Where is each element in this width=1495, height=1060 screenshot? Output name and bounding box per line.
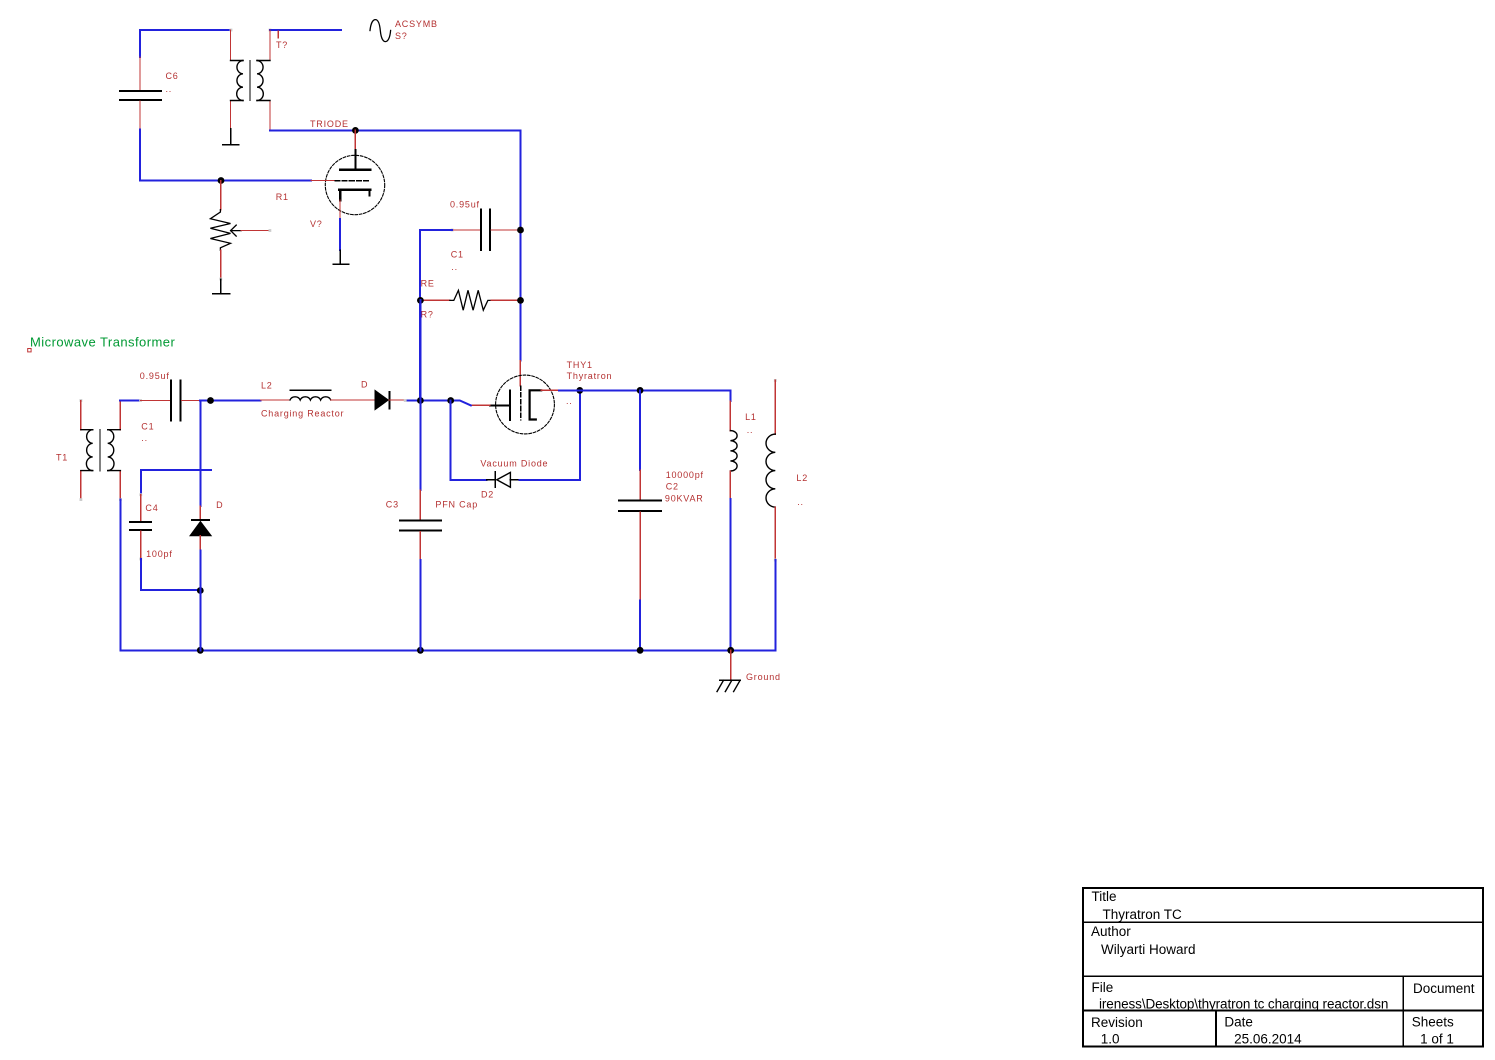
op-amp V? triode tube (310, 130, 385, 229)
junction C1 right node (207, 397, 214, 404)
wire T1 bottom right to rail (119, 500, 121, 651)
wire C4 top branch (141, 470, 211, 495)
svg-text:Wilyarti Howard: Wilyarti Howard (1101, 942, 1196, 957)
wire T1 top right pin (120, 400, 140, 402)
wire L1 bottom lead (729, 499, 731, 650)
diode D2 vacuum diode (480, 459, 548, 500)
inductor L2 Charging Reactor (261, 380, 376, 418)
svg-text:C6: C6 (166, 71, 179, 81)
svg-text:R1: R1 (276, 192, 289, 202)
junction C1 right (517, 227, 524, 234)
pin marker T? left (230, 29, 233, 32)
svg-text:..: .. (797, 497, 804, 507)
title block text Title (1092, 889, 1183, 922)
wire mid vertical to diode D (199, 401, 201, 507)
inductor L2 (right) (766, 379, 808, 561)
svg-text:C1: C1 (451, 250, 464, 260)
title block text Author (1091, 924, 1196, 957)
junction rail ground (727, 647, 734, 654)
junction rail C3 (417, 647, 424, 654)
title block text File (1092, 980, 1475, 1011)
svg-text:L2: L2 (261, 380, 273, 390)
svg-text:Vacuum Diode: Vacuum Diode (480, 459, 548, 469)
svg-text:V?: V? (310, 219, 323, 229)
svg-text:Sheets: Sheets (1412, 1015, 1454, 1030)
junction rail C2 (637, 647, 644, 654)
svg-text:Thyratron: Thyratron (567, 371, 613, 381)
wire RE branch vertical (419, 300, 421, 490)
svg-text:C2: C2 (666, 482, 679, 492)
svg-text:0.95uf: 0.95uf (140, 371, 170, 381)
svg-text:0.95uf: 0.95uf (450, 199, 480, 209)
capacitor C1 0.95uf (top) (450, 199, 521, 272)
svg-text:D2: D2 (481, 489, 494, 499)
svg-text:TRIODE: TRIODE (310, 119, 349, 129)
svg-text:1.0: 1.0 (1101, 1032, 1120, 1047)
AC source symbol ACSYMB S? (370, 19, 438, 42)
title block frame (1083, 888, 1483, 1047)
junction diode output (417, 397, 424, 404)
capacitor C1 0.95uf (mid) (139, 371, 200, 443)
junction C2 top (637, 387, 644, 394)
label Microwave Transformer (28, 335, 176, 352)
wire transformer to ACSYMB net (270, 29, 341, 31)
pin marker T? right (269, 29, 272, 32)
wire C1 left to RE branch (420, 230, 452, 401)
wire C4 bottom branch (141, 559, 201, 590)
wire anode to L1 (559, 390, 730, 401)
title block text Revision Date Sheets (1091, 1015, 1454, 1047)
svg-text:90KVAR: 90KVAR (665, 494, 704, 504)
svg-text:C1: C1 (141, 421, 154, 431)
junction rail C4 (197, 647, 204, 654)
transformer T? (231, 30, 289, 130)
svg-text:Author: Author (1091, 924, 1131, 939)
wire C2 top lead (639, 390, 641, 470)
ground symbol bottom (717, 650, 781, 691)
svg-text:C4: C4 (145, 503, 158, 513)
junction cathode node (447, 397, 454, 404)
junction C4 bottom (197, 587, 204, 594)
wire C6 bottom to triode grid (140, 130, 311, 181)
pin marker T1 bottom right (119, 498, 122, 501)
capacitor C6 (120, 57, 179, 130)
svg-text:25.06.2014: 25.06.2014 (1234, 1032, 1302, 1047)
junction RE right (517, 297, 524, 304)
diode D (vertical) (190, 500, 223, 550)
svg-text:R?: R? (421, 310, 434, 320)
junction grid node (218, 177, 225, 184)
svg-text:Revision: Revision (1091, 1015, 1143, 1030)
svg-text:..: .. (166, 84, 173, 94)
svg-text:10000pf: 10000pf (666, 470, 704, 480)
svg-text:L2: L2 (796, 473, 808, 483)
wire top-left C6 to transformer (140, 30, 231, 57)
svg-text:..: .. (451, 262, 458, 272)
svg-text:L1: L1 (745, 412, 757, 422)
svg-text:RE: RE (421, 278, 435, 288)
svg-text:THY1: THY1 (567, 360, 593, 370)
node RE (421, 278, 435, 288)
capacitor C4 100pf (130, 493, 173, 560)
svg-text:1 of 1: 1 of 1 (1420, 1032, 1454, 1047)
wire diode D bottom to rail (199, 551, 201, 651)
resistor R? (420, 290, 520, 319)
svg-text:S?: S? (395, 31, 408, 41)
svg-text:Charging Reactor: Charging Reactor (261, 409, 344, 419)
svg-text:PFN Cap: PFN Cap (435, 500, 478, 510)
wire thyratron cathode bend (405, 401, 471, 406)
svg-text:Title: Title (1092, 889, 1117, 904)
svg-text:File: File (1092, 980, 1114, 995)
ground under R1 (213, 279, 230, 294)
capacitor C3 PFN Cap (386, 490, 478, 560)
svg-text:Date: Date (1224, 1015, 1253, 1030)
svg-text:..: .. (566, 396, 573, 406)
svg-text:D: D (361, 380, 368, 390)
wire C3 bottom lead (419, 560, 421, 651)
wire vacuum diode right leg (519, 390, 580, 479)
svg-text:C3: C3 (386, 500, 399, 510)
svg-text:Thyratron TC: Thyratron TC (1103, 907, 1183, 922)
junction anode node (576, 387, 583, 394)
transistor THY1 thyratron (471, 360, 613, 434)
ground under transformer T? (223, 129, 239, 145)
wire C2 bottom lead (639, 600, 641, 650)
svg-text:T1: T1 (56, 452, 68, 462)
capacitor C2 10000pf 90KVAR (619, 470, 704, 600)
resistor R1 potentiometer (210, 181, 288, 280)
transformer T1 (56, 399, 120, 501)
junction RE left (417, 297, 424, 304)
junction at TRIODE (352, 127, 359, 134)
svg-text:100pf: 100pf (146, 549, 173, 559)
wire vacuum diode left leg (451, 401, 487, 480)
svg-text:D: D (216, 500, 223, 510)
pin marker R1 bottom (219, 278, 222, 281)
svg-text:ACSYMB: ACSYMB (395, 19, 438, 29)
svg-text:Microwave Transformer: Microwave Transformer (30, 335, 175, 350)
wire TRIODE net (270, 130, 521, 360)
svg-text:Document: Document (1413, 981, 1475, 996)
svg-text:..: .. (141, 433, 148, 443)
wire C1 mid to L2 row (200, 400, 260, 402)
svg-text:..: .. (747, 425, 754, 435)
svg-text:T?: T? (276, 40, 288, 50)
svg-text:Ground: Ground (746, 672, 781, 682)
wire L2 bottom lead (774, 560, 776, 650)
ground under triode cathode (333, 250, 349, 264)
wire triode cathode (339, 219, 341, 250)
svg-text:ireness\Desktop\thyratron tc c: ireness\Desktop\thyratron tc charging re… (1099, 996, 1388, 1011)
inductor L1 (730, 401, 756, 499)
diode D (charging row) (361, 380, 407, 410)
wire bottom rail (120, 649, 775, 651)
